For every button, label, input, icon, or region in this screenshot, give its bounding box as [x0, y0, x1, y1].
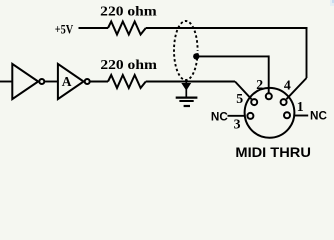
wire diagonal to pin 4 — [286, 78, 306, 99]
stray blue speck top-right — [330, 0, 334, 6]
svg-text:220 ohm: 220 ohm — [100, 3, 157, 18]
svg-text:220 ohm: 220 ohm — [100, 57, 157, 72]
ground bar 2 — [179, 100, 193, 102]
wire dot to corner — [196, 55, 269, 57]
wire diagonal to pin 5 — [235, 82, 252, 100]
svg-text:5: 5 — [236, 91, 243, 106]
svg-text:2: 2 — [256, 77, 263, 92]
wire input to inverter B from left edge — [0, 81, 13, 83]
wire between inverters — [45, 81, 58, 83]
ground arrow — [181, 83, 191, 91]
junction dot on shield — [193, 53, 199, 59]
pin 2 — [266, 93, 272, 99]
pin 4 — [281, 99, 287, 105]
pin 5 — [251, 99, 257, 105]
svg-text:4: 4 — [284, 77, 291, 92]
pin 3 — [247, 113, 253, 119]
wire R2 to bend — [146, 81, 235, 83]
wire +5V to resistor R1 — [79, 27, 109, 29]
svg-text:3: 3 — [234, 116, 241, 131]
pin 1 — [284, 112, 290, 118]
resistor R1 220 ohm (top) — [108, 22, 146, 35]
ground stem — [185, 82, 187, 97]
cable shield ellipse (dashed) — [174, 21, 198, 80]
wire right vertical down — [306, 27, 308, 78]
NC tick left — [228, 115, 245, 117]
svg-text:1: 1 — [297, 99, 304, 114]
svg-text:MIDI THRU: MIDI THRU — [235, 144, 311, 160]
DIN connector circle — [245, 88, 295, 138]
resistor R2 220 ohm (lower) — [108, 75, 146, 88]
wire R1 to top-right corner — [146, 27, 308, 29]
svg-text:+5V: +5V — [55, 22, 74, 37]
wire bubble A to resistor R2 — [90, 81, 108, 83]
wire corner down to pin 2 — [268, 55, 270, 92]
inverter (buffer) triangle 1 — [12, 64, 38, 99]
NC tick right — [295, 115, 308, 117]
inverter 1 output bubble — [39, 79, 44, 84]
inverter A triangle — [58, 64, 84, 99]
svg-text:NC: NC — [310, 109, 327, 122]
ground bar 1 — [176, 96, 198, 98]
svg-text:NC: NC — [211, 110, 228, 123]
svg-text:A: A — [62, 74, 72, 89]
ground bar 3 — [184, 105, 190, 107]
inverter A output bubble — [85, 79, 90, 84]
